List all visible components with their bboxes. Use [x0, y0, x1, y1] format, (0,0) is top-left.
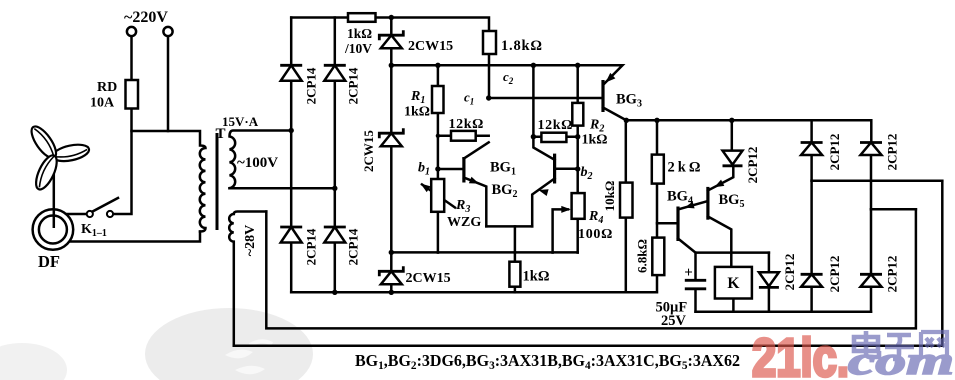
svg-text:K: K — [727, 275, 739, 292]
svg-text:2CW15: 2CW15 — [361, 130, 376, 172]
svg-text:1kΩ: 1kΩ — [347, 26, 372, 41]
svg-text:1kΩ: 1kΩ — [523, 269, 550, 285]
svg-text:2CP12: 2CP12 — [884, 256, 899, 293]
svg-text:1kΩ: 1kΩ — [404, 105, 430, 120]
svg-text:12kΩ: 12kΩ — [538, 118, 573, 133]
svg-text:15V·A: 15V·A — [222, 114, 259, 129]
svg-text:2CW15: 2CW15 — [406, 271, 451, 286]
svg-text:2CP14: 2CP14 — [303, 228, 318, 265]
svg-text:6.8kΩ: 6.8kΩ — [634, 239, 649, 273]
svg-text:2CP14: 2CP14 — [345, 67, 360, 104]
svg-text:2CP14: 2CP14 — [303, 67, 318, 104]
svg-text:2CP12: 2CP12 — [745, 147, 760, 184]
svg-text:2CW15: 2CW15 — [408, 39, 453, 54]
svg-text:2CP12: 2CP12 — [827, 134, 842, 171]
svg-text:RD: RD — [97, 80, 117, 95]
svg-text:WZG: WZG — [447, 215, 481, 230]
svg-text:12kΩ: 12kΩ — [449, 117, 484, 132]
svg-text:2kΩ: 2kΩ — [668, 160, 704, 176]
svg-text:10A: 10A — [90, 96, 115, 111]
svg-text:+: + — [684, 265, 693, 281]
svg-text:21lc.: 21lc. — [752, 328, 849, 380]
svg-text:~100V: ~100V — [237, 155, 278, 171]
svg-text:25V: 25V — [661, 313, 687, 329]
svg-text:1kΩ: 1kΩ — [582, 133, 608, 148]
svg-text:2CP12: 2CP12 — [827, 256, 842, 293]
svg-text:com: com — [848, 338, 954, 380]
svg-text:/10V: /10V — [344, 41, 372, 56]
svg-text:~220V: ~220V — [124, 9, 168, 26]
svg-text:1.8kΩ: 1.8kΩ — [501, 38, 543, 54]
svg-text:2CP14: 2CP14 — [345, 228, 360, 265]
svg-text:2CP12: 2CP12 — [782, 254, 797, 291]
svg-text:2CP12: 2CP12 — [884, 134, 899, 171]
svg-text:~28V: ~28V — [243, 225, 258, 256]
svg-text:DF: DF — [38, 252, 60, 271]
svg-text:10kΩ: 10kΩ — [602, 181, 617, 212]
svg-text:100Ω: 100Ω — [578, 227, 613, 242]
